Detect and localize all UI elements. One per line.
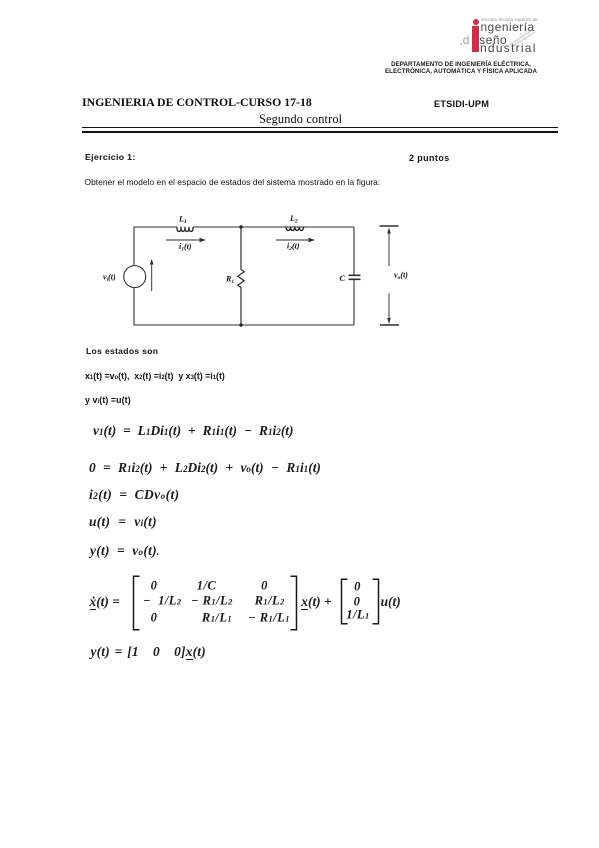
svg-text:i1(t): i1(t) — [179, 242, 192, 253]
inductor L1 — [177, 227, 193, 231]
source arrow — [150, 259, 154, 291]
svg-text:vo(t): vo(t) — [394, 271, 408, 282]
red i dot — [473, 19, 480, 25]
svg-text:vi(t): vi(t) — [103, 273, 116, 284]
ndustrial — [480, 41, 537, 55]
,d — [460, 33, 470, 47]
vector B cells — [84, 574, 86, 576]
inductor L2 — [286, 227, 304, 231]
states line — [85, 371, 225, 381]
bracket A left — [131, 575, 141, 631]
node bottom — [239, 323, 242, 326]
xdot(t) = — [90, 594, 120, 610]
capacitor C wires — [353, 227, 355, 325]
ngenieria — [481, 20, 535, 34]
red i stem — [472, 26, 478, 51]
u(t) — [381, 594, 401, 610]
double rule — [82, 127, 558, 128]
current arrow i1 — [166, 238, 206, 242]
svg-text:L1: L1 — [178, 215, 187, 226]
tiny header text — [481, 17, 538, 22]
y vi(t)=u(t) — [85, 395, 131, 405]
current arrow i2 — [276, 238, 315, 242]
vo dimension line — [380, 226, 400, 325]
watermark hash — [508, 28, 536, 46]
svg-text:C: C — [340, 273, 346, 283]
x(t) + — [301, 594, 331, 610]
wire top-left — [134, 227, 177, 266]
wire — [241, 324, 354, 326]
wire — [193, 226, 241, 228]
wire — [241, 226, 354, 228]
capacitor C plates — [349, 275, 361, 279]
wire — [134, 288, 241, 325]
svg-text:R1: R1 — [225, 275, 234, 286]
resistor R1 — [238, 227, 244, 325]
matrix cells — [84, 574, 86, 576]
bracket B right — [371, 578, 381, 625]
svg-text:L2: L2 — [289, 214, 298, 225]
seno — [479, 33, 507, 47]
bracket B left — [339, 578, 349, 625]
bracket A right — [289, 575, 299, 631]
voltage source vi — [124, 266, 146, 288]
node top — [239, 225, 242, 228]
svg-text:i2(t): i2(t) — [287, 242, 300, 253]
